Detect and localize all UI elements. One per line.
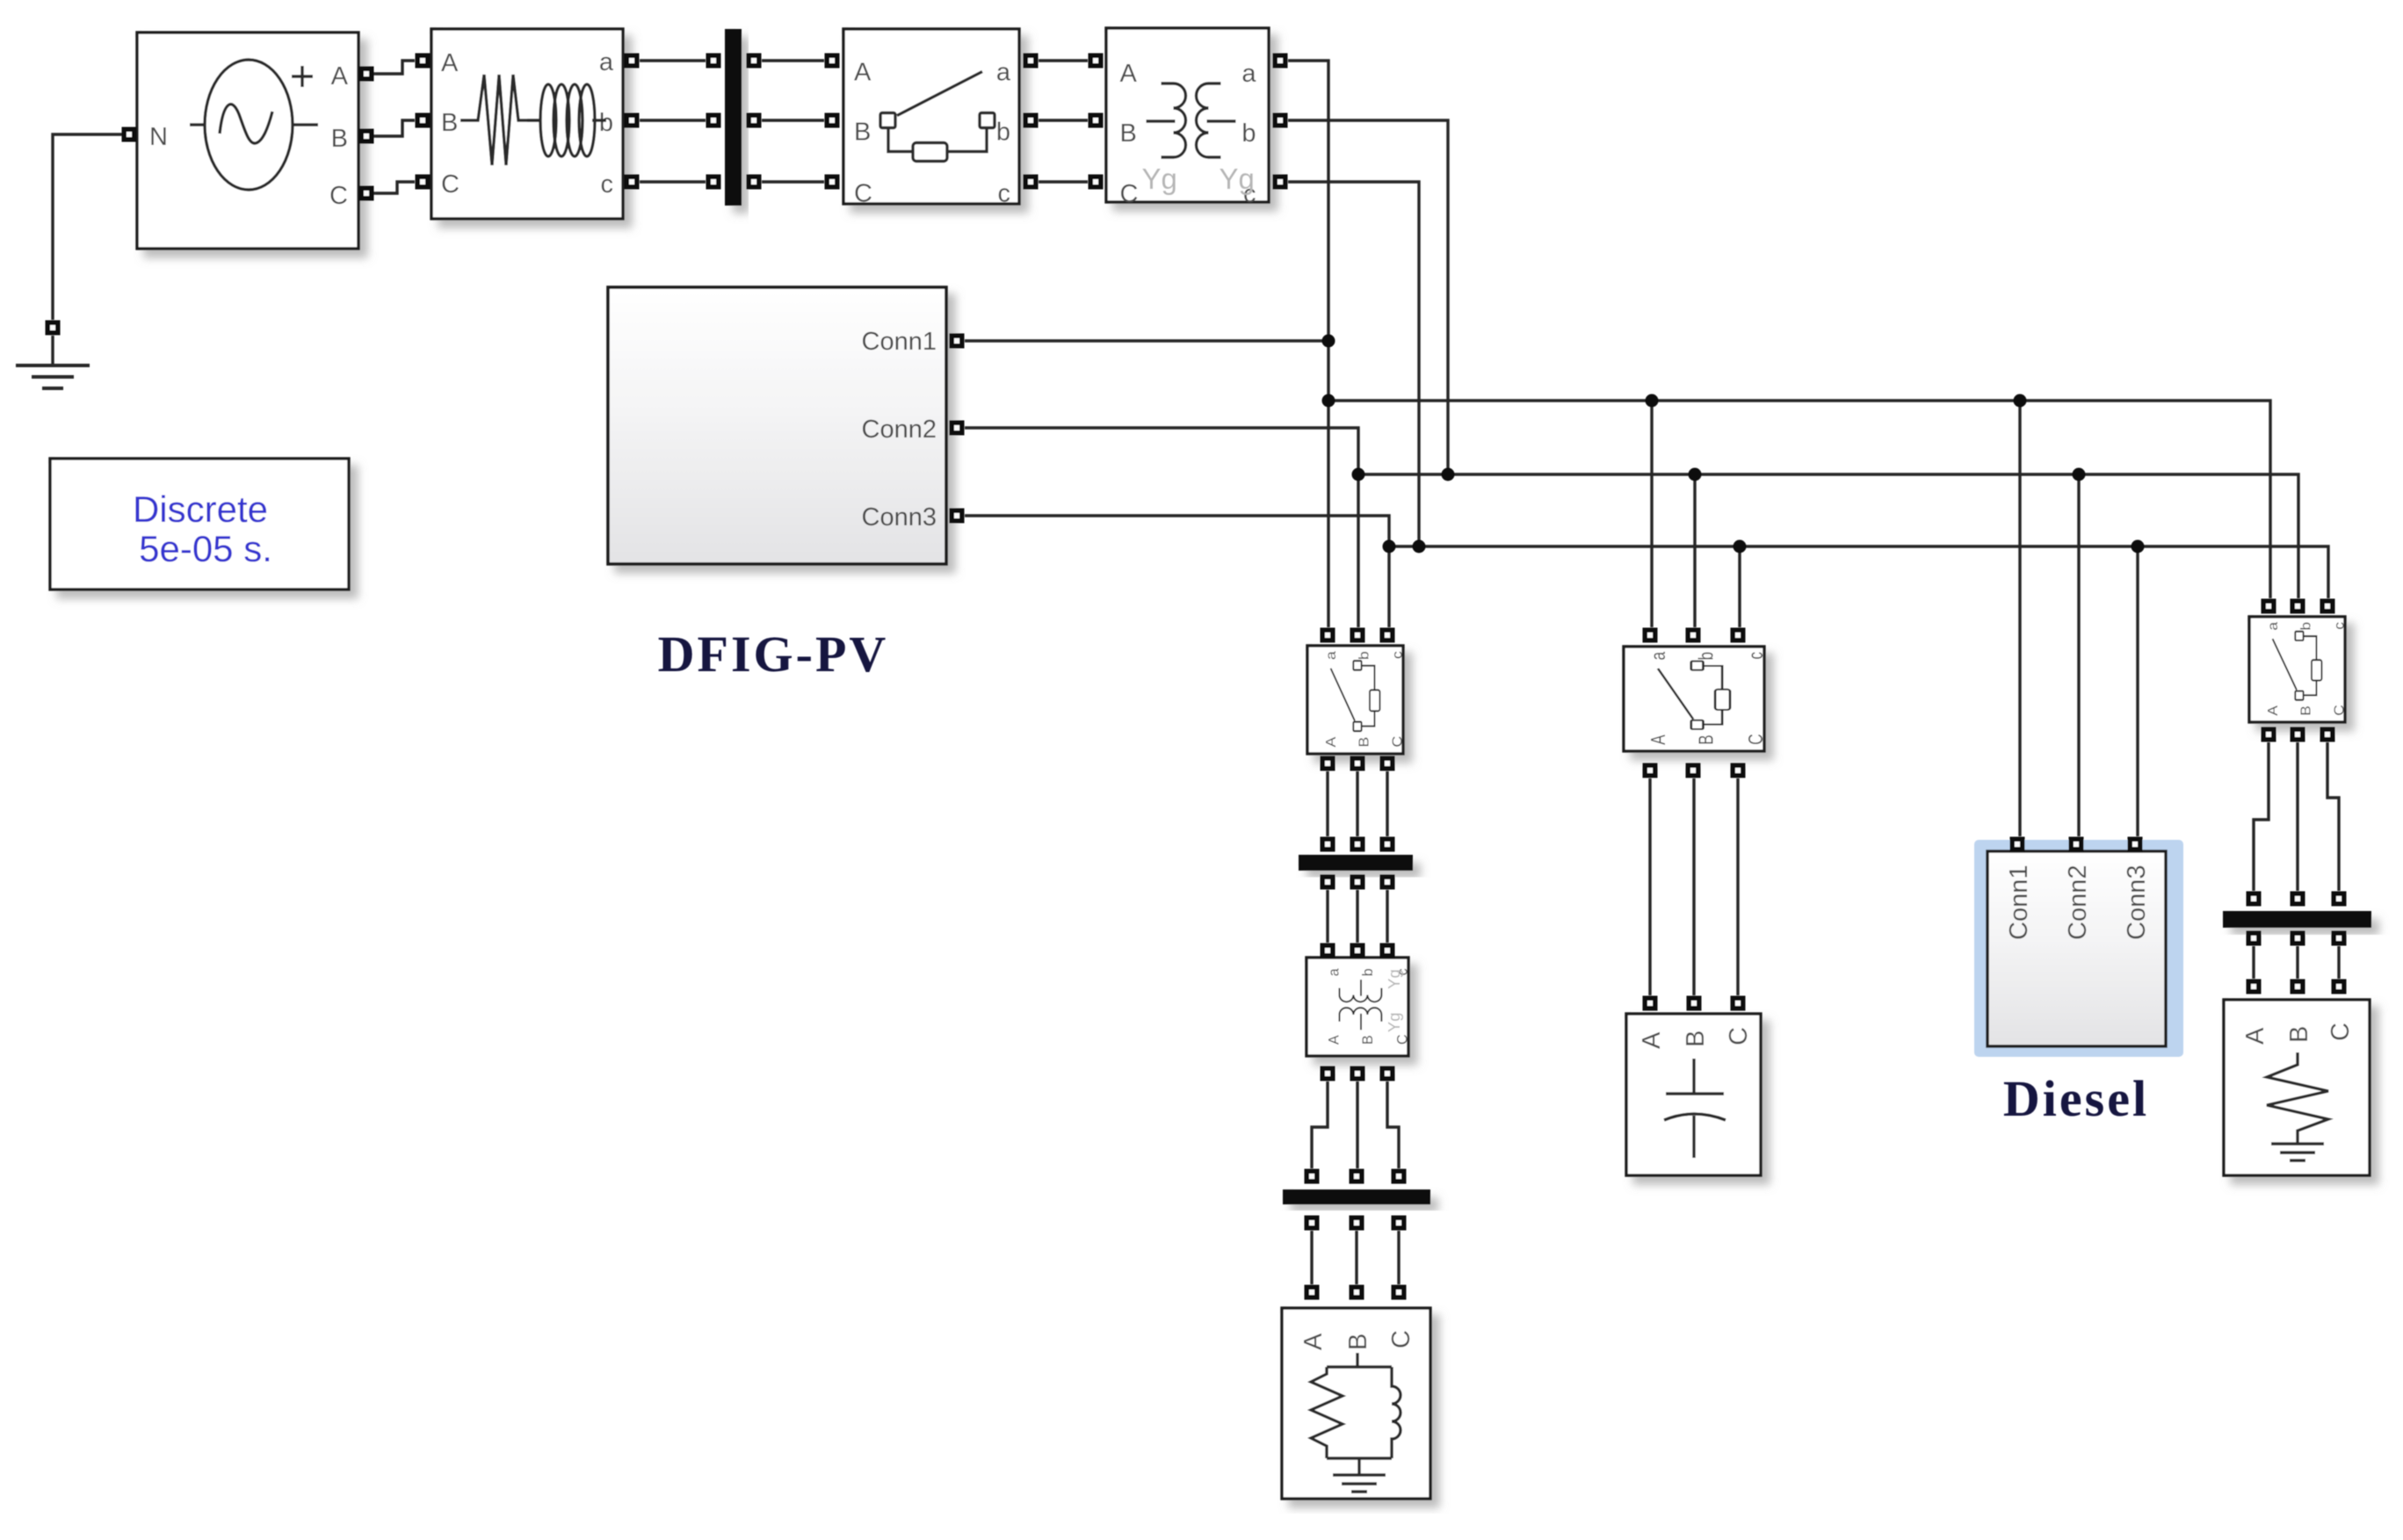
svg-text:DFIG-PV: DFIG-PV [658,625,889,683]
svg-text:Discrete: Discrete [133,488,268,530]
svg-text:C: C [2327,1023,2355,1041]
svg-text:A: A [1299,1333,1328,1350]
svg-text:Diesel: Diesel [2003,1070,2149,1127]
svg-text:B: B [2285,1026,2313,1043]
svg-text:Conn3: Conn3 [2123,865,2151,940]
svg-text:C: C [441,170,460,199]
svg-text:B: B [1682,1030,1710,1047]
svg-text:A: A [1638,1031,1666,1049]
svg-text:B: B [441,109,458,137]
svg-text:5e-05 s.: 5e-05 s. [139,528,272,569]
svg-text:Conn1: Conn1 [2005,865,2033,940]
svg-text:Conn2: Conn2 [2064,865,2092,940]
svg-text:C: C [1387,1330,1415,1348]
svg-text:N: N [149,123,168,151]
svg-text:Conn3: Conn3 [862,503,937,531]
svg-text:c: c [601,170,614,199]
svg-text:b: b [599,109,613,137]
svg-text:B: B [1344,1334,1372,1350]
svg-text:C: C [329,182,348,210]
svg-text:Conn2: Conn2 [862,416,937,444]
svg-text:a: a [599,48,614,76]
svg-text:B: B [331,125,348,153]
svg-text:Conn1: Conn1 [862,328,937,356]
svg-text:C: C [1725,1027,1753,1045]
svg-text:A: A [2241,1027,2269,1045]
svg-text:A: A [441,49,459,77]
svg-text:A: A [331,62,349,90]
